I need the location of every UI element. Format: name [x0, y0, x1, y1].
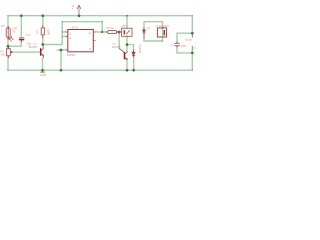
- node dot rail/VCC: [78, 14, 81, 17]
- wire R3 to box component: [117, 31, 119, 33]
- node B dot: [41, 43, 44, 46]
- capacitor C2: [174, 42, 180, 48]
- wire Q2 base drop: [118, 32, 120, 48]
- wire T1 collector up to node B: [42, 45, 44, 48]
- wire LDR bottom to node A: [7, 38, 9, 46]
- wire T1 base from trimmer wiper: [13, 51, 40, 53]
- svg-text:R?: R?: [1, 24, 5, 28]
- wire right rail drop to IC power: [191, 16, 193, 34]
- IC pin stubs: [66, 32, 96, 50]
- svg-text:IC?A: IC?A: [72, 25, 78, 29]
- transistor T1: [40, 48, 44, 59]
- diode D1: [143, 27, 146, 38]
- wire T1 emitter down: [42, 58, 44, 70]
- ground symbol GND: [40, 71, 45, 73]
- trimmer R3: [7, 47, 14, 59]
- supply symbol VCC arrow: [77, 5, 80, 15]
- wire IC output to R3: [96, 31, 106, 33]
- svg-text:10k: 10k: [0, 53, 5, 57]
- svg-text:100n: 100n: [181, 44, 187, 48]
- wire cap C2 bottom to gnd node: [177, 47, 192, 53]
- wire IC pin2 stub: [62, 36, 66, 38]
- wire R2 bottom to node B: [42, 38, 44, 45]
- wire diode D2 bottom to gnd rail: [133, 57, 135, 70]
- resistor R4 horizontal: [106, 30, 119, 33]
- wire IC pin1 stub: [62, 31, 66, 33]
- svg-text:10u: 10u: [26, 42, 31, 46]
- node dot T1 emitter gnd: [41, 69, 44, 72]
- svg-text:K? SRD05DC: K? SRD05DC: [155, 26, 170, 28]
- wire through relay box: [162, 28, 164, 41]
- svg-text:BC548: BC548: [112, 45, 121, 49]
- wire left drop above LDR: [7, 16, 9, 28]
- node dot ICP vdd: [191, 32, 194, 35]
- transistor Q2: [119, 48, 127, 59]
- svg-text:1N4148: 1N4148: [138, 44, 142, 54]
- wire gnd drop from dot: [60, 50, 62, 70]
- diode D2: [132, 50, 135, 58]
- svg-text:D?: D?: [147, 26, 151, 30]
- node dot IC gnd rail: [60, 69, 63, 72]
- wire node C right to diode D2: [127, 45, 134, 50]
- svg-text:C?: C?: [26, 33, 30, 37]
- wire feedback top horizontal: [62, 21, 102, 23]
- wire cap C1 bottom to node A: [8, 40, 21, 46]
- wire Q2 collector up to node C: [126, 45, 128, 52]
- svg-text:R: R: [89, 32, 91, 36]
- svg-text:R?: R?: [35, 30, 39, 34]
- svg-text:SP?: SP?: [122, 25, 127, 28]
- node dot rail/C1: [20, 14, 23, 17]
- node dot Q2 emitter gnd: [126, 69, 129, 72]
- wire R2 top drop: [42, 16, 44, 26]
- svg-text:S: S: [69, 32, 71, 36]
- wire relay bottom link to diode D1: [144, 39, 163, 41]
- svg-text:GND: GND: [40, 73, 46, 77]
- wire node A to trimmer top: [7, 46, 9, 48]
- wire VCC top rail: [8, 15, 192, 17]
- wire box component top drop from rail: [126, 16, 128, 28]
- node C dot: [126, 43, 129, 46]
- node dot rail/R2: [41, 14, 44, 17]
- wire feedback right drop to output net: [101, 22, 103, 32]
- IC power gate ICP: [191, 34, 193, 50]
- relay K1 box: [157, 28, 166, 37]
- svg-text:100k: 100k: [47, 29, 51, 35]
- wire box component bottom to node C: [126, 36, 128, 44]
- wire GND bottom rail: [8, 69, 192, 71]
- wire trimmer bottom to gnd rail: [7, 56, 9, 70]
- wire relay top link: [144, 22, 163, 28]
- node dot output feedback: [101, 31, 103, 33]
- svg-text:BC548: BC548: [29, 45, 38, 49]
- wire feedback node B right and up: [43, 22, 62, 45]
- svg-text:4093N: 4093N: [67, 53, 75, 57]
- svg-text:D: D: [69, 36, 71, 40]
- background: [0, 0, 200, 77]
- junction dots: [7, 14, 194, 71]
- op-amp gate IC1A box: [68, 30, 94, 52]
- wire cap C1 top drop: [20, 16, 22, 37]
- resistor LDR R1: [6, 26, 13, 42]
- wire Q2 emitter down: [126, 60, 128, 71]
- wire ICP vss to gnd rail: [191, 50, 193, 70]
- resistor R2: [41, 25, 44, 38]
- buzzer box component: [119, 28, 132, 36]
- node A dot: [7, 45, 10, 48]
- svg-text:R? 1k: R? 1k: [107, 26, 115, 30]
- node dot D2 gnd: [132, 69, 135, 72]
- wire ICP vdd to cap C2 top: [177, 33, 192, 42]
- wire gnd stub into IC pin3: [57, 49, 66, 51]
- node dot ICP vss: [191, 52, 194, 55]
- node dot IC gnd stub: [60, 49, 63, 52]
- svg-text:C?: C?: [170, 43, 174, 47]
- capacitor C1: [19, 38, 24, 42]
- node dot Q2 base: [118, 31, 121, 34]
- svg-text:IC?P: IC?P: [186, 38, 192, 42]
